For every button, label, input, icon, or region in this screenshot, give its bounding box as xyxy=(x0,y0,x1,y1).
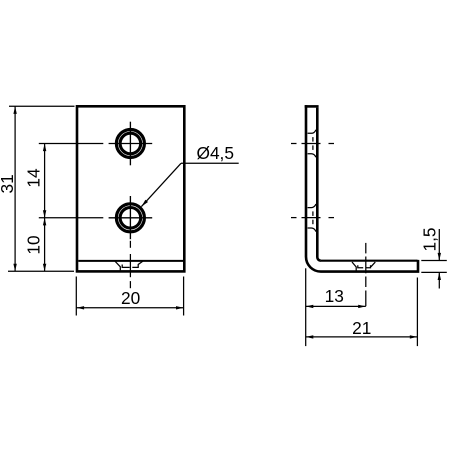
side view leg hole centerline (dashed vertical) xyxy=(365,243,367,306)
hole bottom centerlines xyxy=(109,196,153,239)
svg-text:31: 31 xyxy=(0,174,17,193)
svg-text:1,5: 1,5 xyxy=(420,227,440,251)
dimension 14 xyxy=(24,144,104,218)
svg-text:20: 20 xyxy=(121,288,140,308)
side view bottom hole edge marks xyxy=(308,204,316,232)
dimension 10 xyxy=(24,218,47,271)
front view plate outline xyxy=(77,106,184,271)
svg-text:21: 21 xyxy=(352,318,371,338)
side view inner edge with inner bend radius xyxy=(317,108,321,261)
svg-text:10: 10 xyxy=(24,235,44,254)
hole bottom (front view) xyxy=(116,204,144,232)
countersunk hole projection marks in front-view bend strip xyxy=(115,261,143,270)
svg-text:13: 13 xyxy=(325,286,344,306)
side view top end cap xyxy=(305,105,319,108)
dimension 20 xyxy=(76,277,183,316)
svg-text:14: 14 xyxy=(24,168,44,188)
hole top (front view) xyxy=(116,130,144,158)
dimension 21 xyxy=(306,278,418,347)
side view bottom hole centerline (dashed) xyxy=(291,217,334,219)
svg-text:Ø4,5: Ø4,5 xyxy=(197,143,234,163)
dashed centerline below bottom hole (front view) xyxy=(129,241,131,288)
dimension 31 xyxy=(0,106,74,271)
dimension 1,5 xyxy=(420,227,447,288)
hole top centerlines xyxy=(109,122,153,166)
front view bend tangent (fold) line xyxy=(78,260,183,262)
side view outer contour (left edge, bend, bottom edge, end cap) xyxy=(306,105,418,272)
dimension 13 xyxy=(306,268,366,346)
side view leg hole projection marks xyxy=(352,262,375,271)
side view top hole centerline (dashed) xyxy=(291,143,334,145)
side view top hole edge marks xyxy=(308,130,316,158)
side view leg top edge xyxy=(321,260,418,262)
label leader Ø4,5 xyxy=(141,143,238,206)
